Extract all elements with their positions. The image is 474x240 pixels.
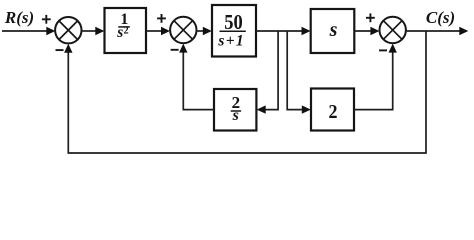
svg-text:s: s	[232, 107, 239, 124]
plus sign at S1 input	[42, 15, 51, 24]
svg-text:2: 2	[328, 101, 337, 123]
wire: input R(s) to summer S1	[2, 27, 55, 35]
wire: outer feedback C(s) takeoff down and back to S1 minus input	[64, 31, 426, 153]
summing junction S2	[170, 17, 196, 43]
block G1 (1/s^2)	[105, 8, 147, 53]
wire: G2 output to block G3 with two takeoff nodes	[256, 27, 311, 35]
wire: S3 to C(s) output with takeoff node C	[406, 27, 468, 35]
node R(s) input label	[4, 8, 34, 27]
wire: H1 output up to S2 minus input	[179, 44, 214, 110]
minus sign at S3 lower input	[379, 49, 387, 51]
svg-text:s + 1: s + 1	[217, 32, 243, 49]
block H1 (2/s)	[214, 89, 256, 131]
minus sign at S1 lower input	[56, 49, 64, 51]
block G3 (s)	[311, 9, 355, 53]
summing junction S3	[380, 17, 406, 43]
wire: G3 to summer S3	[354, 27, 379, 35]
wire: H2 output up to S3 minus input	[354, 44, 397, 110]
wire: takeoff node A down to 2/s input (arrow into right side of H1)	[257, 31, 278, 114]
plus sign at S3 input	[366, 13, 375, 22]
summing junction S1	[55, 17, 81, 43]
svg-text:2: 2	[124, 26, 129, 37]
wire: takeoff node B down to block 2 input	[287, 31, 311, 114]
block H2 (2)	[311, 89, 354, 131]
minus sign at S2 lower input	[171, 49, 179, 51]
plus sign at S2 input	[157, 14, 166, 23]
block G2 (50/(s+1))	[212, 5, 256, 57]
svg-text:s: s	[329, 19, 338, 41]
wire: G1 to summer S2	[146, 27, 170, 35]
node C(s) output label	[426, 8, 455, 27]
wire: S2 to block G2	[197, 27, 212, 35]
wire: S1 to block G1	[82, 27, 105, 35]
svg-text:s: s	[116, 24, 123, 41]
svg-text:R(s): R(s)	[4, 8, 34, 27]
svg-text:C(s): C(s)	[426, 8, 455, 27]
